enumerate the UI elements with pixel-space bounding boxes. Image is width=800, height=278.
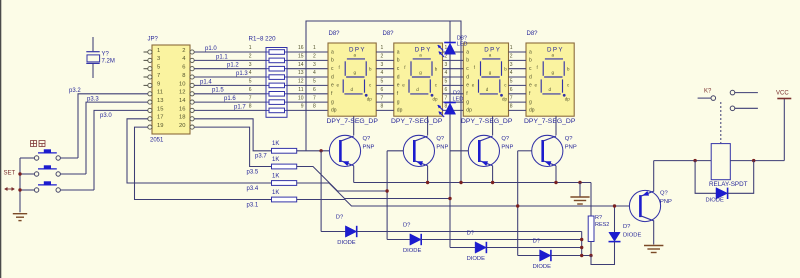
svg-text:5: 5 [445, 79, 448, 85]
svg-text:2: 2 [249, 54, 252, 60]
svg-text:p3.0: p3.0 [100, 113, 112, 119]
svg-text:17: 17 [157, 115, 163, 121]
svg-text:DIODE: DIODE [337, 240, 355, 246]
svg-text:dp: dp [565, 97, 571, 102]
svg-text:e: e [529, 83, 532, 89]
svg-text:g: g [331, 99, 334, 105]
svg-text:dp: dp [397, 108, 403, 114]
svg-text:6: 6 [249, 87, 252, 93]
svg-text:e: e [397, 83, 400, 89]
svg-text:d: d [397, 74, 400, 80]
svg-text:7: 7 [313, 95, 316, 101]
svg-text:7: 7 [381, 95, 384, 101]
svg-text:Q?: Q? [363, 136, 372, 142]
svg-text:10: 10 [298, 95, 304, 101]
svg-text:4: 4 [445, 70, 448, 76]
svg-text:7: 7 [249, 95, 252, 101]
svg-text:3: 3 [381, 62, 384, 68]
svg-text:1: 1 [249, 45, 252, 51]
svg-text:6: 6 [381, 87, 384, 93]
svg-text:p1.5: p1.5 [212, 88, 224, 94]
svg-text:g: g [466, 99, 469, 105]
svg-text:2: 2 [381, 54, 384, 60]
svg-text:dp: dp [466, 108, 472, 114]
svg-text:d: d [529, 74, 532, 80]
svg-text:p1.4: p1.4 [200, 79, 212, 85]
svg-text:Q?: Q? [501, 136, 510, 142]
svg-text:D8?: D8? [329, 31, 341, 37]
svg-text:3: 3 [157, 56, 160, 62]
svg-text:VCC: VCC [776, 90, 789, 96]
svg-text:PNP: PNP [436, 145, 448, 151]
svg-text:dp: dp [331, 108, 337, 114]
svg-text:5: 5 [510, 79, 513, 85]
svg-text:1: 1 [157, 48, 160, 54]
svg-text:DPY: DPY [349, 46, 366, 53]
svg-text:a: a [529, 49, 532, 55]
svg-text:DPY_7-SEG_DP: DPY_7-SEG_DP [524, 118, 576, 125]
svg-text:2: 2 [510, 54, 513, 60]
svg-text:DPY: DPY [547, 46, 564, 53]
svg-text:8: 8 [313, 104, 316, 110]
svg-text:p3.1: p3.1 [247, 202, 259, 208]
svg-text:K?: K? [704, 88, 712, 94]
svg-text:p3.5: p3.5 [247, 169, 259, 175]
svg-text:D?: D? [336, 214, 344, 220]
svg-text:1K: 1K [272, 173, 279, 179]
svg-text:13: 13 [298, 70, 304, 76]
svg-text:11: 11 [157, 90, 163, 96]
svg-text:18: 18 [179, 115, 185, 121]
svg-text:4: 4 [510, 70, 513, 76]
svg-text:4: 4 [249, 70, 252, 76]
svg-text:p1.1: p1.1 [216, 54, 228, 60]
svg-text:4: 4 [381, 70, 384, 76]
svg-text:Y?: Y? [102, 51, 110, 57]
svg-text:p1.0: p1.0 [205, 46, 217, 52]
svg-text:20: 20 [179, 123, 185, 129]
svg-text:PNP: PNP [660, 199, 672, 205]
svg-text:8: 8 [249, 104, 252, 110]
svg-text:15: 15 [157, 106, 163, 112]
svg-text:b: b [529, 58, 532, 64]
svg-text:2: 2 [313, 54, 316, 60]
svg-text:9: 9 [301, 104, 304, 110]
svg-text:2: 2 [182, 48, 185, 54]
svg-text:dp: dp [367, 97, 373, 102]
svg-text:1: 1 [381, 45, 384, 51]
svg-text:Q?: Q? [436, 136, 445, 142]
svg-text:5: 5 [249, 79, 252, 85]
svg-text:12: 12 [179, 90, 185, 96]
svg-text:7: 7 [510, 95, 513, 101]
svg-text:9: 9 [157, 81, 160, 87]
svg-text:b: b [331, 58, 334, 64]
svg-text:D8?: D8? [527, 31, 539, 37]
svg-text:5: 5 [157, 65, 160, 71]
svg-text:1K: 1K [272, 157, 279, 163]
svg-text:14: 14 [298, 62, 304, 68]
svg-text:p3.3: p3.3 [87, 96, 99, 102]
svg-text:8: 8 [381, 104, 384, 110]
svg-text:g: g [529, 99, 532, 105]
svg-text:1K: 1K [272, 141, 279, 147]
svg-text:1: 1 [510, 45, 513, 51]
svg-text:12: 12 [298, 79, 304, 85]
svg-text:a: a [466, 49, 469, 55]
svg-text:1: 1 [313, 45, 316, 51]
svg-text:13: 13 [157, 98, 163, 104]
svg-text:D?: D? [623, 224, 631, 230]
svg-text:5: 5 [381, 79, 384, 85]
svg-text:D8?: D8? [383, 31, 395, 37]
svg-text:2051: 2051 [150, 137, 164, 143]
svg-text:3: 3 [249, 62, 252, 68]
svg-text:10: 10 [179, 81, 185, 87]
svg-text:8: 8 [182, 73, 185, 79]
svg-text:6: 6 [182, 65, 185, 71]
svg-text:1K: 1K [272, 190, 279, 196]
svg-text:DPY: DPY [415, 46, 432, 53]
svg-text:2: 2 [445, 54, 448, 60]
svg-text:3: 3 [445, 62, 448, 68]
svg-text:DPY_7-SEG_DP: DPY_7-SEG_DP [327, 118, 379, 125]
svg-text:d: d [331, 74, 334, 80]
svg-text:b: b [466, 58, 469, 64]
svg-text:p3.2: p3.2 [69, 88, 81, 94]
svg-text:16: 16 [179, 106, 185, 112]
svg-text:16: 16 [298, 45, 304, 51]
svg-text:dp: dp [433, 97, 439, 102]
svg-text:11: 11 [298, 87, 303, 93]
svg-text:a: a [397, 49, 400, 55]
svg-text:p3.4: p3.4 [247, 186, 259, 192]
svg-text:Q?: Q? [660, 190, 669, 196]
svg-text:d: d [466, 74, 469, 80]
svg-text:4: 4 [313, 70, 316, 76]
svg-text:LED: LED [457, 42, 468, 48]
svg-text:a: a [331, 49, 334, 55]
svg-text:D?: D? [403, 222, 411, 228]
svg-text:D?: D? [453, 90, 460, 96]
svg-text:DPY_7-SEG_DP: DPY_7-SEG_DP [391, 118, 443, 125]
svg-text:RELAY-SPDT: RELAY-SPDT [709, 181, 748, 188]
svg-text:PNP: PNP [501, 145, 513, 151]
svg-text:SET: SET [4, 170, 16, 176]
svg-text:g: g [397, 99, 400, 105]
svg-text:LED: LED [453, 97, 464, 103]
svg-text:R?: R? [595, 215, 602, 221]
svg-text:e: e [466, 83, 469, 89]
svg-text:DIODE: DIODE [467, 256, 485, 262]
svg-text:DIODE: DIODE [706, 198, 724, 204]
svg-text:b: b [397, 58, 400, 64]
svg-text:7.2M: 7.2M [102, 58, 115, 64]
svg-text:3: 3 [510, 62, 513, 68]
svg-text:e: e [331, 83, 334, 89]
svg-text:14: 14 [179, 98, 186, 104]
svg-text:DIODE: DIODE [533, 264, 551, 270]
svg-text:R1~8 220: R1~8 220 [249, 35, 277, 42]
svg-text:PNP: PNP [565, 145, 577, 151]
svg-text:p3.7: p3.7 [255, 153, 267, 159]
svg-text:dp: dp [502, 97, 508, 102]
svg-text:7: 7 [445, 95, 448, 101]
svg-text:p1.6: p1.6 [224, 96, 236, 102]
svg-text:3: 3 [313, 62, 316, 68]
svg-text:DIODE: DIODE [623, 232, 641, 238]
svg-text:JP?: JP? [148, 36, 159, 42]
svg-text:15: 15 [298, 54, 304, 60]
svg-text:D?: D? [533, 238, 541, 244]
svg-text:PNP: PNP [363, 145, 375, 151]
svg-text:p1.3: p1.3 [236, 71, 248, 77]
svg-text:6: 6 [510, 87, 513, 93]
svg-text:DPY_7-SEG_DP: DPY_7-SEG_DP [461, 118, 513, 125]
svg-text:8: 8 [510, 104, 513, 110]
svg-text:6: 6 [445, 87, 448, 93]
svg-text:D?: D? [467, 230, 475, 236]
svg-text:p1.2: p1.2 [227, 63, 239, 69]
svg-text:Q?: Q? [565, 136, 574, 142]
svg-text:7: 7 [157, 73, 160, 79]
svg-text:6: 6 [313, 87, 316, 93]
svg-text:DIODE: DIODE [403, 248, 421, 254]
svg-text:dp: dp [529, 108, 535, 114]
svg-text:p1.7: p1.7 [234, 104, 246, 110]
svg-text:DPY: DPY [484, 46, 501, 53]
svg-text:19: 19 [157, 123, 163, 129]
svg-text:5: 5 [313, 79, 316, 85]
svg-text:RES2: RES2 [595, 222, 609, 228]
